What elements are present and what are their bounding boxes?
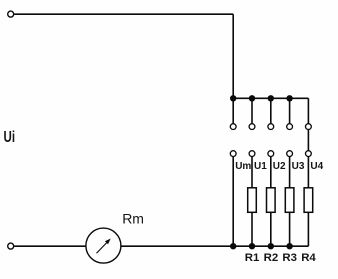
socket terminal upper U4: [306, 124, 312, 130]
wire: top bus horizontal: [233, 97, 308, 99]
socket terminal upper Um: [230, 124, 236, 130]
wire: stub bus to U1 socket: [251, 98, 253, 123]
junction dot bottom node Um: [230, 243, 236, 249]
output terminal bottom-left: [8, 243, 14, 249]
resistor R1: [248, 188, 257, 213]
wire: bus corner drop to U4 socket: [307, 98, 309, 123]
wire: R3 to bottom bus: [289, 212, 291, 246]
junction dot bus node Um: [230, 95, 236, 101]
meter needle arrowhead: [105, 239, 111, 245]
wire: R4 to bottom bus corner: [307, 212, 309, 246]
svg-text:U1: U1: [254, 161, 267, 172]
svg-text:R3: R3: [282, 252, 297, 264]
wire: stub bus to U3 socket: [289, 98, 291, 123]
input terminal top-left: [8, 11, 14, 17]
wire: lower U3 socket to R3: [289, 157, 291, 188]
junction dot bottom node R2: [268, 243, 274, 249]
wire: meter to bottom bus: [121, 245, 309, 247]
socket terminal upper U3: [287, 124, 293, 130]
socket terminal lower U3: [287, 151, 293, 157]
wire: link between U4 socket pair: [307, 130, 309, 151]
junction dot bottom node R1: [249, 243, 255, 249]
wire: stub bus to Um socket: [232, 98, 234, 123]
socket terminal lower Um: [230, 151, 236, 157]
svg-text:U4: U4: [310, 161, 323, 172]
socket terminal upper U1: [249, 124, 255, 130]
svg-text:Ui: Ui: [4, 127, 16, 145]
socket terminal lower U1: [249, 151, 255, 157]
junction dot bus node U2: [268, 95, 274, 101]
wire: top horizontal from input terminal: [14, 13, 233, 15]
resistor R3: [285, 188, 294, 213]
svg-text:R1: R1: [245, 252, 260, 264]
junction dot bottom node R3: [286, 243, 292, 249]
wire: lower U2 socket to R2: [270, 157, 272, 188]
svg-text:U3: U3: [292, 161, 305, 172]
wire: R2 to bottom bus: [270, 212, 272, 246]
socket terminal lower U4: [306, 151, 312, 157]
svg-text:U2: U2: [273, 161, 286, 172]
wire: Um branch down to bottom bus: [232, 157, 234, 247]
svg-text:Rm: Rm: [122, 210, 144, 226]
junction dot bus node U3: [286, 95, 292, 101]
resistor R2: [267, 188, 276, 213]
wire: lower U1 socket to R1: [251, 157, 253, 188]
svg-text:R4: R4: [301, 252, 316, 264]
junction dot bus node U1: [249, 95, 255, 101]
wire: stub bus to U2 socket: [270, 98, 272, 123]
meter Rm body: [86, 228, 121, 263]
wire: vertical drop to bus: [232, 14, 234, 98]
wire: R1 to bottom bus: [251, 212, 253, 246]
svg-text:Um: Um: [235, 161, 251, 172]
wire: bottom terminal to meter: [14, 245, 86, 247]
wire: lower U4 socket to R4: [307, 157, 309, 188]
meter needle: [97, 240, 109, 253]
socket terminal upper U2: [268, 124, 274, 130]
socket terminal lower U2: [268, 151, 274, 157]
svg-text:R2: R2: [264, 252, 279, 264]
resistor R4: [304, 188, 313, 213]
